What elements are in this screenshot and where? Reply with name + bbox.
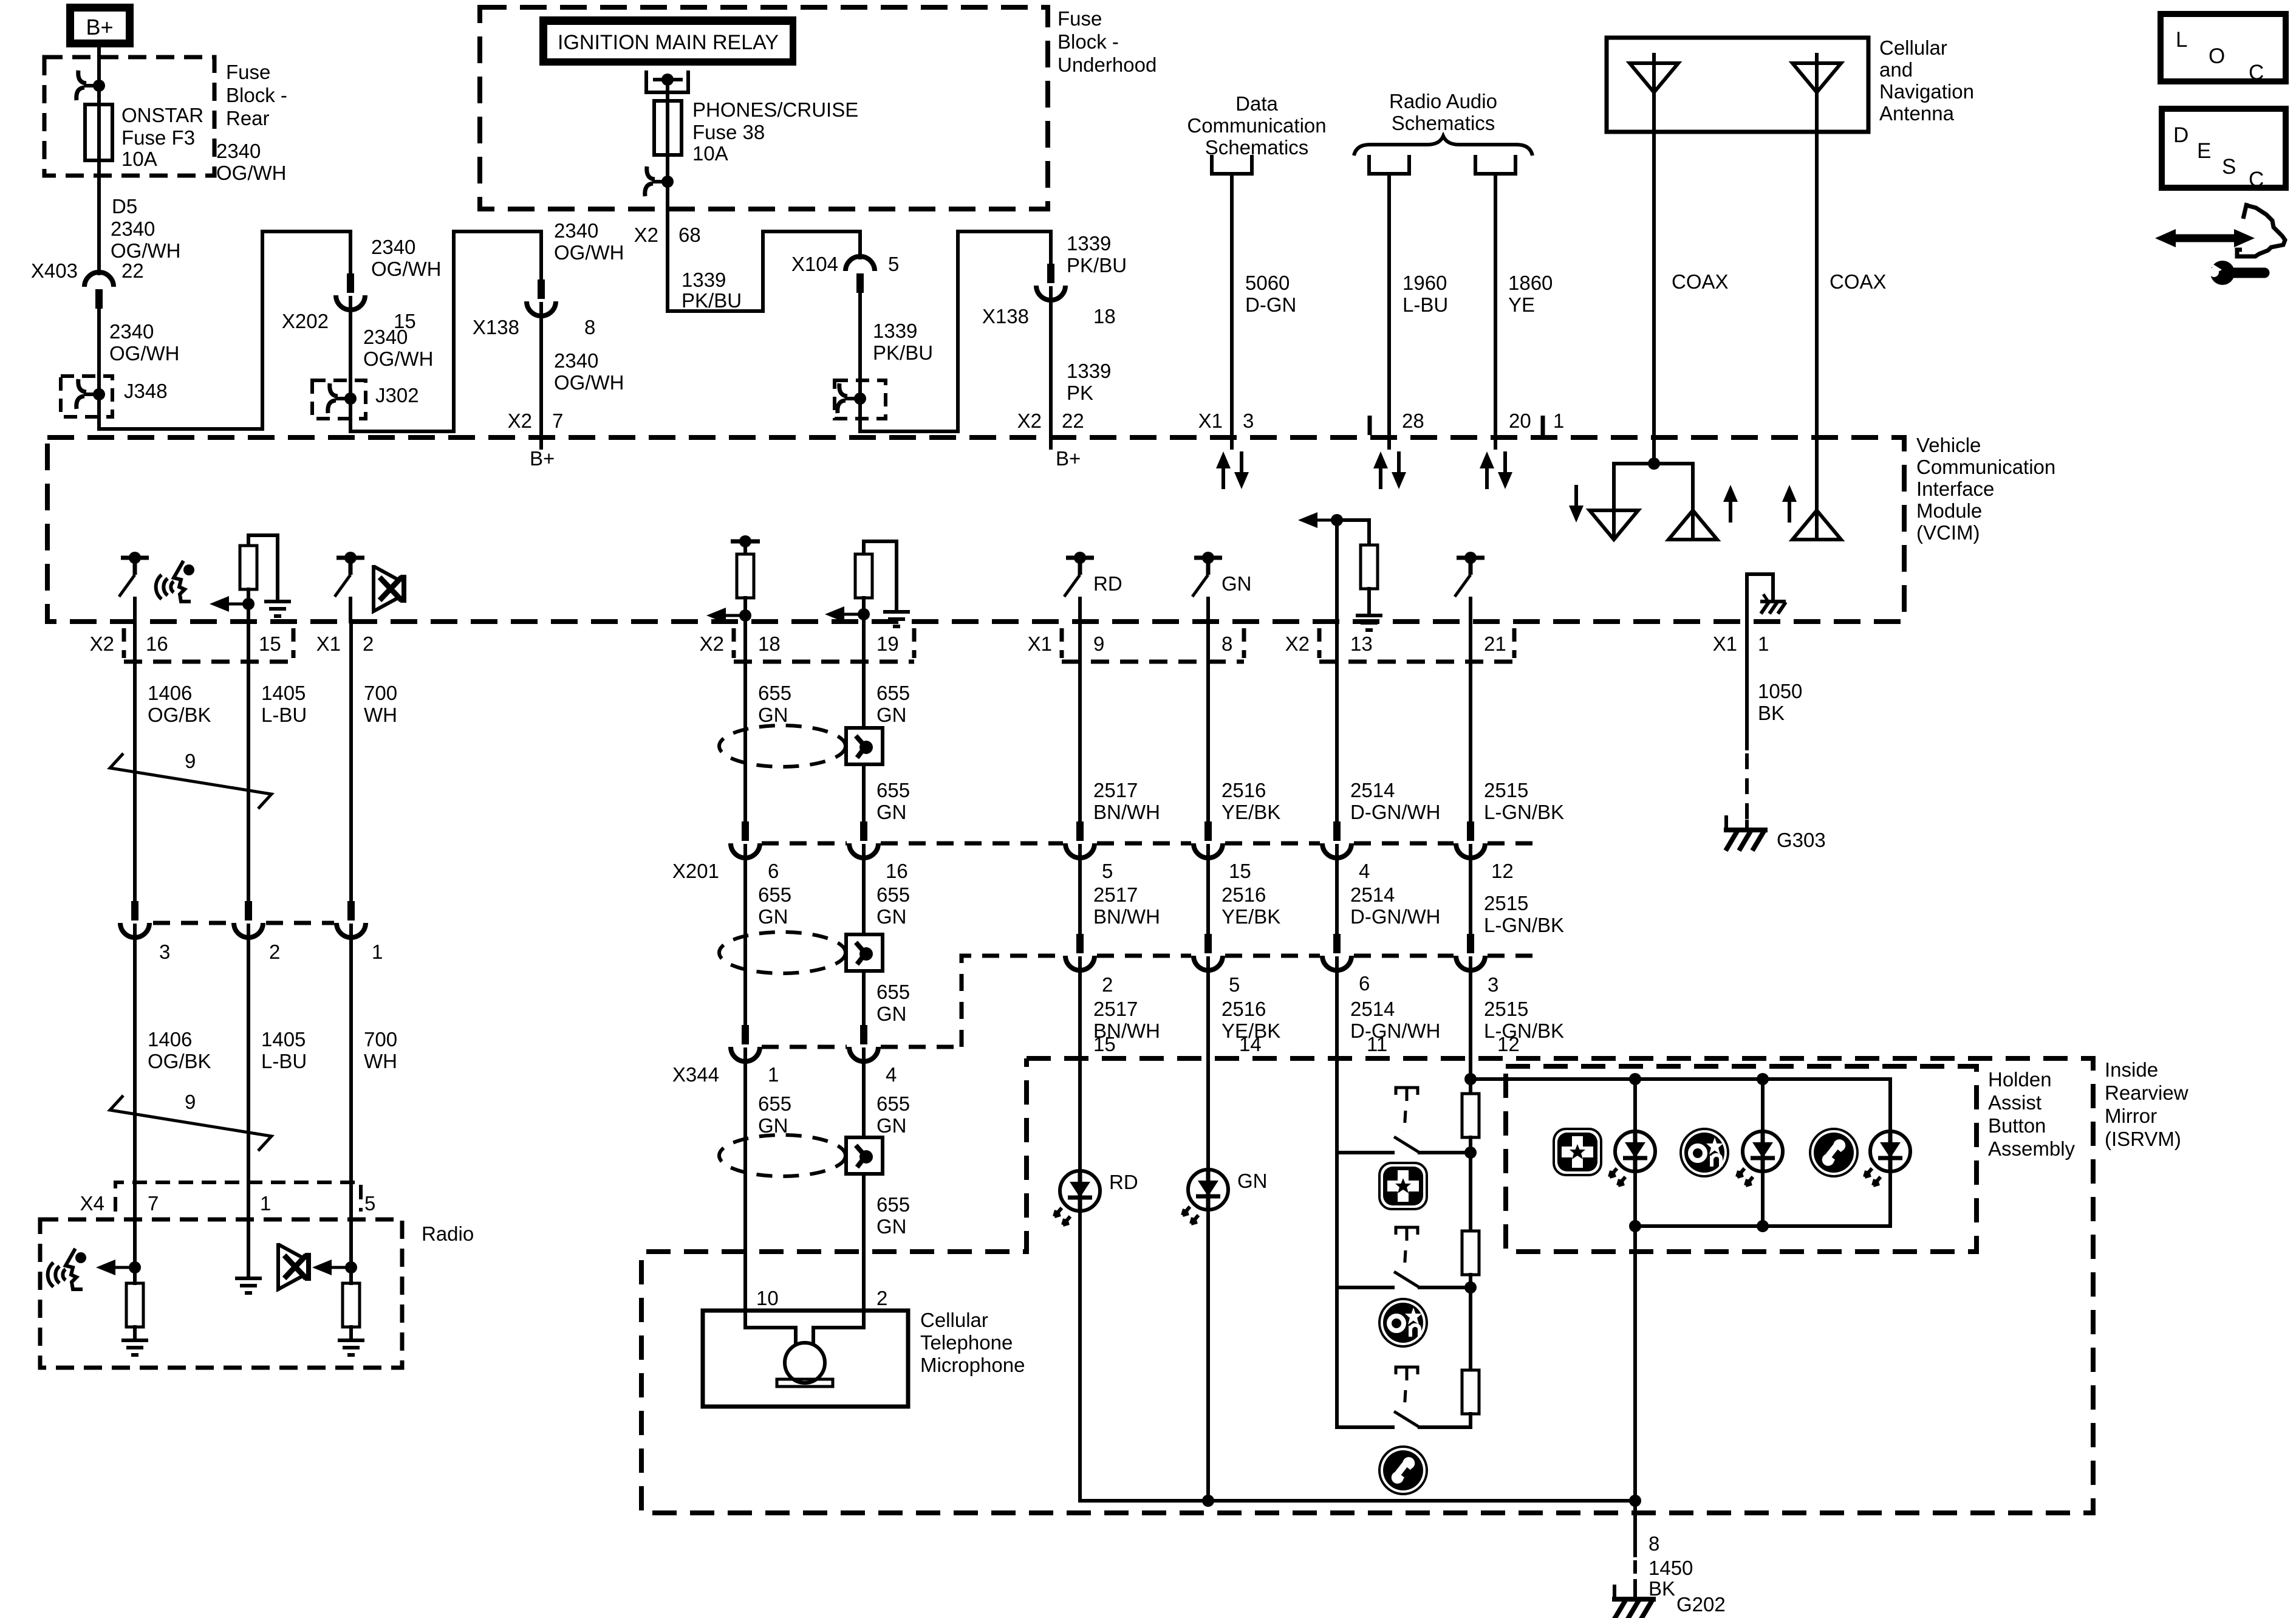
LED supply rail (1471, 1077, 1890, 1081)
svg-text:Antenna: Antenna (1879, 102, 1955, 125)
svg-text:Data: Data (1235, 92, 1278, 115)
svg-text:Cellular: Cellular (1879, 36, 1947, 59)
wires below X344 (743, 1049, 747, 1328)
svg-text:700: 700 (364, 682, 397, 704)
svg-text:OG/WH: OG/WH (216, 162, 286, 184)
VCIM mic+ terminal (X2-16) (119, 552, 149, 597)
svg-text:Button: Button (1988, 1114, 2046, 1137)
wire down into X202 (349, 231, 352, 275)
svg-text:X4: X4 (80, 1192, 104, 1215)
shield junction square 3 (846, 1137, 883, 1174)
VCIM button return terminal (X2-21) (1455, 552, 1485, 597)
svg-text:X2: X2 (1017, 410, 1042, 432)
svg-text:2: 2 (269, 941, 280, 963)
wire label 1339 PK/BU (873, 320, 933, 364)
wire 1406 OG/BK (133, 622, 137, 902)
connector tick left of 28 (1368, 416, 1372, 435)
svg-text:L-GN/BK: L-GN/BK (1484, 801, 1564, 823)
svg-text:5: 5 (1229, 973, 1240, 996)
svg-text:GN: GN (876, 1215, 907, 1238)
svg-text:2517: 2517 (1093, 883, 1138, 906)
svg-text:2516: 2516 (1221, 779, 1266, 801)
X201 dashed connector line (762, 842, 847, 846)
svg-text:RD: RD (1093, 572, 1122, 595)
fuse ONSTAR F3 (85, 105, 112, 160)
svg-text:655: 655 (876, 1193, 910, 1216)
label ONSTAR Fuse F3 10A (121, 104, 203, 170)
wire X104 to splice (858, 291, 862, 399)
splice J348 (77, 379, 99, 409)
svg-text:Rearview: Rearview (2105, 1082, 2188, 1104)
OnStar button face (1379, 1299, 1427, 1346)
fuse PHONES/CRUISE 38 (654, 101, 682, 155)
svg-text:28: 28 (1402, 410, 1424, 432)
wires below assist connector (1078, 958, 1082, 1170)
VCIM button sense (X2-13): dot arrow resistor ground (1331, 514, 1343, 526)
twisted pair ellipse 1 (719, 725, 846, 767)
svg-text:1960: 1960 (1403, 272, 1447, 294)
svg-text:X2: X2 (90, 632, 114, 655)
svg-text:2517: 2517 (1093, 998, 1138, 1020)
svg-text:D-GN/WH: D-GN/WH (1350, 801, 1440, 823)
svg-text:BK: BK (1758, 702, 1785, 724)
wire label 655 GN (876, 779, 910, 823)
svg-text:Radio Audio: Radio Audio (1389, 90, 1497, 112)
OnStar button switch (1338, 1286, 1393, 1289)
svg-text:X202: X202 (282, 310, 329, 332)
svg-text:Holden: Holden (1988, 1068, 2052, 1091)
svg-text:GN: GN (876, 704, 907, 726)
wire run right and up to X104 (668, 231, 860, 311)
wire 2517 BN/WH (1078, 622, 1082, 821)
svg-text:1: 1 (768, 1063, 779, 1086)
radio mic input: dot arrow icon resistor ground (129, 1261, 141, 1273)
LED return wires (1078, 1212, 1082, 1501)
svg-text:D: D (2173, 123, 2188, 147)
wire splice right and up to X138 pin 18 (860, 231, 1051, 431)
svg-text:L-BU: L-BU (1403, 293, 1448, 316)
svg-text:D-GN: D-GN (1245, 293, 1296, 316)
VCIM audio out 18: bar dot resistor arrow (731, 540, 760, 544)
Holden Assist Button Assembly dashed box (1506, 1066, 1977, 1252)
wire 2515 L-GN/BK (1469, 622, 1472, 821)
svg-text:2515: 2515 (1484, 779, 1528, 801)
connector X138 pin 18 (1036, 264, 1065, 300)
twisted pair ellipse 3 (719, 1135, 846, 1176)
svg-text:(VCIM): (VCIM) (1916, 521, 1980, 544)
svg-text:OG/WH: OG/WH (554, 371, 624, 394)
in-line connector pins 3 2 1 (120, 901, 149, 938)
label Data Communication Schematics (1187, 92, 1326, 159)
label Vehicle Communication Interface Module (VCIM) (1916, 434, 2055, 544)
wire X138-18 to VCIM X2-22 (1049, 288, 1053, 448)
connector X201 pins 6 16 (731, 821, 760, 858)
wire 1405 L-BU (247, 622, 250, 902)
svg-text:E: E (2197, 139, 2211, 163)
svg-text:COAX: COAX (1672, 270, 1729, 293)
Cellular and Navigation Antenna box (1607, 38, 1868, 132)
off-page bracket radio audio right (1475, 157, 1515, 174)
svg-text:Radio: Radio (422, 1222, 474, 1245)
svg-text:WH: WH (364, 1050, 397, 1072)
X1-1 internal ground wire (1747, 574, 1773, 630)
wire label 1860 YE (1508, 272, 1553, 316)
svg-text:YE: YE (1508, 293, 1535, 316)
wrench icon (2201, 258, 2264, 285)
wire X202 to J302 (349, 298, 352, 399)
svg-text:D-GN/WH: D-GN/WH (1350, 1020, 1440, 1042)
svg-text:BN/WH: BN/WH (1093, 905, 1160, 928)
svg-text:Mirror: Mirror (2105, 1105, 2157, 1127)
resistor ladder on 2515 (1462, 1094, 1479, 1137)
svg-text:2515: 2515 (1484, 998, 1528, 1020)
svg-text:9: 9 (1093, 632, 1104, 655)
down arrow (1569, 485, 1584, 523)
svg-text:GN: GN (1237, 1170, 1268, 1192)
wires below X201 (1078, 846, 1082, 934)
ground G202 (1612, 1585, 1656, 1618)
svg-text:1450: 1450 (1649, 1557, 1693, 1579)
svg-text:D5: D5 (112, 195, 137, 218)
svg-text:X138: X138 (982, 305, 1029, 327)
svg-text:2340: 2340 (109, 320, 154, 343)
label Inside Rearview Mirror (ISRVM) (2105, 1058, 2188, 1150)
wire label 2340 OG/WH (363, 326, 433, 370)
svg-text:6: 6 (768, 860, 779, 882)
svg-text:OG/BK: OG/BK (148, 1050, 211, 1072)
wire fuse to X403 (97, 160, 101, 273)
svg-text:2514: 2514 (1350, 779, 1395, 801)
svg-text:O: O (2209, 44, 2225, 68)
svg-text:9: 9 (185, 750, 196, 772)
VCIM audio return 19: resistor to ground (864, 541, 897, 609)
svg-text:19: 19 (876, 632, 899, 655)
svg-text:GN: GN (876, 801, 907, 823)
wire 1960 L-BU to VCIM pin 28 (1387, 174, 1391, 448)
wire label 2340 OG/WH (554, 349, 624, 394)
svg-text:8: 8 (584, 316, 595, 338)
svg-text:18: 18 (758, 632, 781, 655)
label Cellular and Navigation Antenna (1879, 36, 1974, 125)
svg-text:and: and (1879, 58, 1913, 81)
svg-text:2: 2 (876, 1287, 887, 1309)
svg-text:X1: X1 (1713, 632, 1737, 655)
svg-text:12: 12 (1497, 1033, 1520, 1055)
svg-text:2517: 2517 (1093, 779, 1138, 801)
svg-text:1406: 1406 (148, 1028, 192, 1051)
svg-text:Inside: Inside (2105, 1058, 2158, 1081)
wire label 2340 OG/WH (216, 140, 286, 184)
svg-text:BK: BK (1649, 1577, 1675, 1600)
svg-text:3: 3 (159, 941, 170, 963)
svg-text:X2: X2 (508, 410, 532, 432)
svg-text:C: C (2249, 168, 2264, 191)
connector X138 pin 8 (527, 279, 556, 316)
svg-text:IGNITION MAIN RELAY: IGNITION MAIN RELAY (558, 31, 779, 54)
svg-text:Cellular: Cellular (920, 1309, 988, 1331)
svg-text:18: 18 (1093, 305, 1116, 327)
Fuse Block - Rear dashed box (44, 57, 214, 176)
svg-text:1339: 1339 (1067, 360, 1111, 382)
svg-text:2516: 2516 (1221, 998, 1266, 1020)
splice J302 dashed box (312, 380, 366, 419)
svg-text:655: 655 (758, 883, 791, 906)
wire X138 to VCIM X2-7 (539, 304, 543, 448)
svg-text:4: 4 (886, 1063, 897, 1086)
vehicle arrow icon (2155, 203, 2285, 256)
svg-text:1406: 1406 (148, 682, 192, 704)
svg-text:L: L (2176, 28, 2187, 52)
svg-text:16: 16 (146, 632, 168, 655)
svg-text:PK/BU: PK/BU (682, 289, 742, 312)
radio speaker out: dot arrow icon resistor ground (345, 1261, 357, 1273)
VCIM RD LED driver terminal (X1-9) (1064, 552, 1094, 597)
OnStar button icon (1681, 1129, 1728, 1176)
dashed portion of 1050 BK (1745, 753, 1749, 821)
svg-text:X138: X138 (473, 316, 519, 338)
svg-text:1339: 1339 (873, 320, 917, 342)
svg-text:Rear: Rear (226, 107, 270, 129)
svg-text:Telephone: Telephone (920, 1331, 1013, 1354)
svg-text:Assist: Assist (1988, 1091, 2041, 1114)
wire J302 down right to riser (350, 399, 454, 431)
svg-text:J302: J302 (375, 384, 419, 406)
wires below X201 (743, 846, 747, 1025)
svg-text:X201: X201 (672, 860, 719, 882)
VCIM GN LED driver terminal (X1-8) (1192, 552, 1222, 597)
svg-text:2514: 2514 (1350, 883, 1395, 906)
svg-text:15: 15 (1093, 1033, 1116, 1055)
wire 2514 D-GN/WH (1335, 622, 1339, 821)
svg-text:2514: 2514 (1350, 998, 1395, 1020)
svg-text:G303: G303 (1777, 829, 1826, 851)
svg-text:Block -: Block - (226, 84, 287, 106)
connector X202 pin 15 (336, 273, 365, 310)
svg-text:PK/BU: PK/BU (1067, 254, 1127, 276)
off-page connector bracket data comm (1212, 157, 1252, 174)
svg-text:1860: 1860 (1508, 272, 1553, 294)
connector X403 pin 22 (84, 272, 114, 309)
svg-text:1405: 1405 (261, 682, 306, 704)
svg-text:22: 22 (121, 259, 144, 282)
svg-text:OG/WH: OG/WH (554, 241, 624, 264)
svg-text:10A: 10A (692, 142, 728, 165)
svg-text:X2: X2 (634, 224, 658, 246)
splice (838, 383, 860, 413)
svg-text:Vehicle: Vehicle (1916, 434, 1981, 456)
VCIM mic- resistor to ground (X2-15) (248, 535, 278, 599)
svg-text:8: 8 (1649, 1532, 1659, 1555)
IGNITION MAIN RELAY box (539, 16, 796, 66)
svg-text:1405: 1405 (261, 1028, 306, 1051)
wire label 2340 OG/WH (371, 236, 441, 280)
wire J348 down and right to riser (99, 394, 262, 429)
label Radio Audio Schematics (1389, 90, 1497, 134)
up arrow (1723, 485, 1738, 523)
coax 2 antenna triangle (1792, 510, 1841, 540)
dashed connector link up to assist connector (962, 956, 1064, 1047)
svg-text:X2: X2 (1285, 632, 1310, 655)
wire B+ to ONSTAR fuse (97, 47, 101, 105)
label PHONES/CRUISE Fuse 38 10A (692, 98, 858, 165)
svg-text:2: 2 (1102, 973, 1113, 996)
transmit antenna triangle (1669, 510, 1717, 540)
svg-text:Fuse: Fuse (226, 61, 270, 83)
svg-text:1050: 1050 (1758, 680, 1802, 702)
svg-text:655: 655 (876, 682, 910, 704)
svg-text:7: 7 (552, 410, 563, 432)
B+ power box (66, 4, 134, 47)
wire label 1339 PK (1067, 360, 1111, 404)
svg-text:Schematics: Schematics (1392, 112, 1495, 134)
coax 1 wire (1652, 55, 1656, 464)
wire 1050 BK (1745, 622, 1749, 749)
Fuse Block - Underhood dashed box (480, 7, 1048, 209)
svg-text:5: 5 (1102, 860, 1113, 882)
svg-text:X403: X403 (31, 259, 78, 282)
riser up and right to X138 (454, 231, 541, 431)
svg-text:Module: Module (1916, 499, 1982, 522)
svg-text:4: 4 (1359, 860, 1370, 882)
splice J348 dashed box (61, 376, 112, 417)
svg-text:YE/BK: YE/BK (1221, 801, 1280, 823)
svg-text:3: 3 (1488, 973, 1498, 996)
svg-text:Underhood: Underhood (1057, 53, 1157, 76)
emergency button switch (1338, 1151, 1393, 1154)
cross button icon (1554, 1129, 1601, 1175)
svg-text:BN/WH: BN/WH (1093, 801, 1160, 823)
wire 2516 YE/BK (1206, 622, 1210, 821)
LOC box (2161, 14, 2286, 84)
Cellular Telephone Microphone box (703, 1311, 908, 1407)
svg-text:GN: GN (1221, 572, 1252, 595)
svg-text:1: 1 (372, 941, 383, 963)
svg-text:Navigation: Navigation (1879, 80, 1974, 103)
wire labels D5 2340 OG/WH (111, 195, 180, 262)
svg-text:14: 14 (1239, 1033, 1262, 1055)
internal chassis ground (1760, 594, 1786, 614)
harness bundle marker 9 (110, 750, 272, 809)
Inside Rearview Mirror ISRVM dashed boundary (641, 1058, 2093, 1513)
svg-text:Fuse: Fuse (1057, 7, 1102, 30)
svg-text:13: 13 (1350, 632, 1373, 655)
coax 2 wire (1815, 55, 1819, 509)
LED cathode rail (1635, 1224, 1890, 1228)
wire to edge (133, 598, 137, 622)
coax 1 junction dot (1648, 458, 1660, 470)
svg-text:RD: RD (1109, 1171, 1138, 1193)
svg-text:PK/BU: PK/BU (873, 341, 933, 364)
svg-text:2340: 2340 (216, 140, 261, 162)
svg-text:Communication: Communication (1916, 456, 2055, 478)
emergency LED (1610, 1131, 1655, 1185)
connector tick right of 20 (1541, 416, 1545, 435)
talking head icon (156, 561, 194, 602)
RD LED (1054, 1171, 1100, 1225)
svg-text:655: 655 (758, 682, 791, 704)
svg-text:OG/WH: OG/WH (363, 348, 433, 370)
svg-text:L-BU: L-BU (261, 704, 307, 726)
twisted pair ellipse 2 (719, 932, 846, 973)
svg-text:GN: GN (758, 905, 788, 928)
svg-text:1: 1 (1553, 410, 1564, 432)
svg-text:655: 655 (876, 779, 910, 801)
svg-text:2515: 2515 (1484, 892, 1528, 914)
wire 655 GN (19) (862, 622, 866, 821)
svg-text:PK: PK (1067, 382, 1093, 404)
svg-text:16: 16 (886, 860, 908, 882)
svg-text:21: 21 (1484, 632, 1506, 655)
svg-text:Block -: Block - (1057, 30, 1119, 53)
svg-text:5: 5 (888, 253, 899, 275)
svg-text:(ISRVM): (ISRVM) (2105, 1128, 2181, 1150)
phone LED (1865, 1131, 1910, 1185)
svg-text:655: 655 (876, 1092, 910, 1115)
ground wire to G202 (1633, 1501, 1637, 1555)
wire 655 GN (18) (743, 622, 747, 821)
serial data arrows pin 20 (1480, 451, 1494, 489)
svg-text:GN: GN (876, 1114, 907, 1137)
OnStar LED (1737, 1131, 1783, 1185)
antenna 2 (1792, 63, 1841, 92)
svg-text:X1: X1 (1198, 410, 1223, 432)
label Fuse Block - Underhood (1057, 7, 1157, 76)
svg-text:X1: X1 (1028, 632, 1052, 655)
svg-text:Microphone: Microphone (920, 1354, 1025, 1376)
svg-text:PHONES/CRUISE: PHONES/CRUISE (692, 98, 858, 121)
svg-text:8: 8 (1221, 632, 1232, 655)
wire label 2340 OG/WH (554, 219, 624, 264)
wire label 2340 OG/WH (109, 320, 179, 365)
splice J302 (328, 383, 350, 413)
mic element (745, 1328, 864, 1344)
connector X4 bracket (115, 1182, 361, 1212)
svg-text:655: 655 (758, 1092, 791, 1115)
wire 1860 YE to VCIM pin 20 (1494, 174, 1497, 448)
receive antenna ground triangle (1590, 510, 1638, 540)
svg-text:12: 12 (1491, 860, 1514, 882)
svg-text:2: 2 (363, 632, 374, 655)
svg-text:ONSTAR: ONSTAR (121, 104, 203, 126)
splice dashed box below X104 (835, 380, 886, 419)
svg-text:L-GN/BK: L-GN/BK (1484, 1020, 1564, 1042)
svg-text:3: 3 (1243, 410, 1254, 432)
cross button face (1379, 1163, 1427, 1209)
connector X344 pins 1 4 (731, 1025, 760, 1061)
wire 700 WH (349, 622, 353, 902)
wire X403 to J348 (97, 307, 101, 394)
wire label 1339 PK/BU (682, 269, 742, 312)
phone button icon (1810, 1129, 1857, 1176)
LED return rail (1080, 1499, 1635, 1503)
svg-text:B+: B+ (1056, 447, 1081, 470)
serial data arrows (1216, 451, 1231, 489)
svg-text:OG/BK: OG/BK (148, 704, 211, 726)
connector X201 pins 5 15 4 12 (1065, 821, 1095, 858)
svg-text:Communication: Communication (1187, 114, 1326, 137)
svg-text:2340: 2340 (554, 219, 598, 242)
wire label 1960 L-BU (1403, 272, 1448, 316)
wires to radio (133, 925, 137, 1267)
svg-text:9: 9 (185, 1091, 196, 1113)
svg-text:7: 7 (148, 1192, 159, 1215)
svg-text:GN: GN (876, 905, 907, 928)
connector X104 pin 5 (846, 256, 875, 293)
svg-text:G202: G202 (1676, 1593, 1726, 1616)
svg-text:700: 700 (364, 1028, 397, 1051)
DESC box (2162, 109, 2286, 191)
svg-text:S: S (2222, 155, 2236, 179)
